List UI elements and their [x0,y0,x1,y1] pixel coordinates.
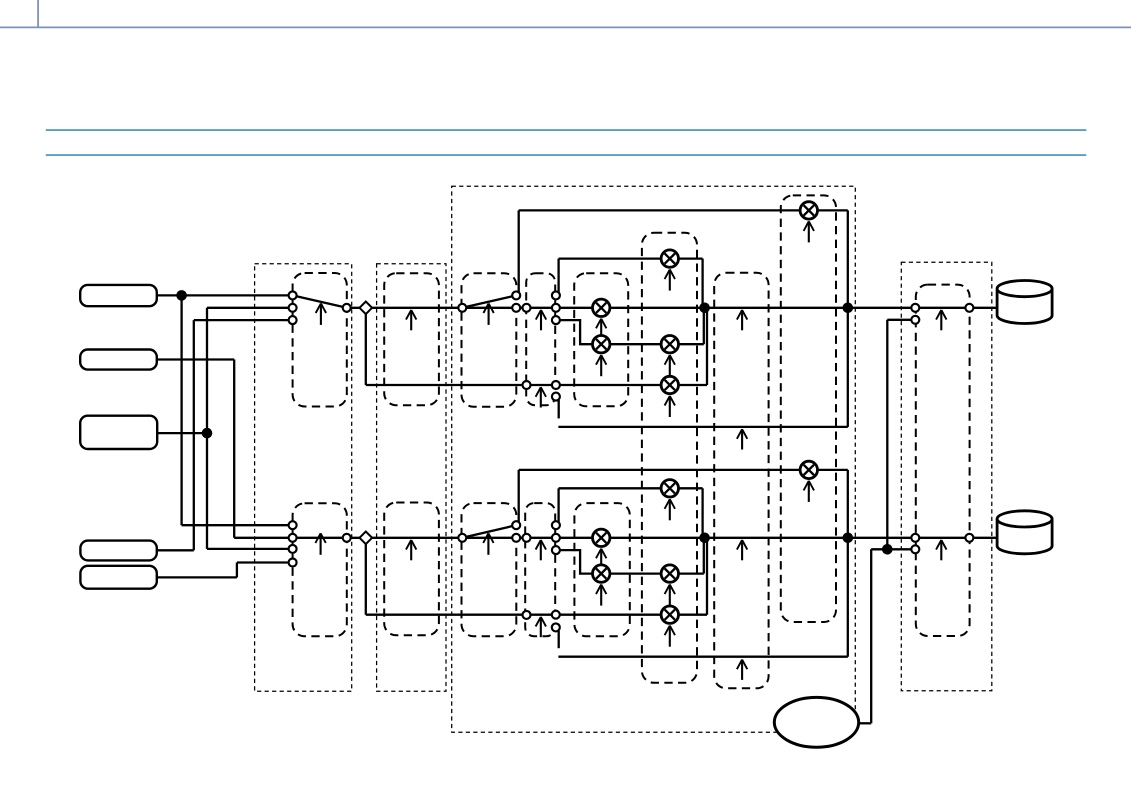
wire monitor rise ch2 [706,538,708,615]
multiplier M9 [661,480,678,497]
sink cylinder SINK2 [997,511,1052,554]
selector SW2a box (loopback select) [462,273,517,407]
selector SW2b control arrow [483,533,493,555]
contact SW2a loop contact [512,291,520,299]
multiplier M12 (loopback ch2) [800,461,817,478]
contact SP1 low out [552,316,560,324]
source box S3 [80,416,157,449]
contact SW1b contact 1 [289,521,297,529]
junction node C (mix sum ch1) [699,303,710,314]
monitor line ch1 [366,384,707,386]
gain V5 monitor arrow ch1 [737,429,747,449]
contact SW2a thru contact [512,304,520,312]
selector SW1b box (channel 2 input select) [293,503,347,636]
wire S4 to SW1a contact 3 [194,319,293,321]
contact SW1a common [343,304,351,312]
wire S5 to SW1b contact 4 [237,561,293,563]
contact sink1 out contact [965,304,973,312]
multiplier M11 [661,606,678,623]
sink1 gain arrow [936,310,946,330]
contact SW1a contact 2 [289,304,297,312]
wire splitter rise ch1 [557,259,559,293]
source box S5 [80,566,156,589]
source box S2 [80,350,157,370]
contact SW1b contact 2 [289,534,297,542]
volume arrow of multiplier M10 [665,585,675,606]
junction node A [176,290,187,301]
diamond tap ch1 [360,302,373,315]
splitter SP1 monitor arrow [536,387,546,407]
diamond tap ch2 [360,532,373,545]
header tab separator [37,0,39,27]
main bus channel 1 [347,307,998,309]
multiplier M4 [661,336,678,353]
microphone ellipse MIC1 [774,697,858,747]
wire S2 to SW1b contact 2 [234,537,292,539]
multiplier M7 [593,529,610,546]
volume box V3 (shared column) [642,233,697,683]
contact SP2 low out [552,546,560,554]
volume arrow of multiplier M2 [596,355,606,376]
multiplier M10 [661,565,678,582]
multiplier M2 [593,336,610,353]
contact SW1a contact 1 [289,291,297,299]
title rule 2 [46,154,1087,156]
wire aux column [886,320,888,550]
selector SW2b arm [462,525,516,538]
wire gain row rise ch2 [703,538,705,574]
contact SW2a input [458,304,466,312]
wire S2 riser [233,360,235,538]
contact sink2 main contact [911,534,919,542]
wire S5 out [157,576,237,578]
volume arrow of multiplier M7 [596,549,606,570]
selector SW1a arm [293,295,347,307]
gain V5 arrow ch1 [737,310,747,330]
wire tap drop ch1 [365,308,367,385]
multiplier M1 [593,299,610,316]
contact SW2b thru contact [512,534,520,542]
source box S1 [80,285,157,306]
splitter SP2 monitor arrow [536,617,546,637]
wire monitor return drop ch2 (open end) [558,631,560,648]
contact SP2 monitor out [552,611,560,619]
contact SP2 main in [523,534,531,542]
wire S1 to SW1a contact 1 [157,294,293,296]
wire S3 to SW1a contact 2 [207,307,293,309]
volume arrow of multiplier M9 [665,499,675,520]
wire S3 bus riser [206,308,208,549]
selector SW1b control arrow [315,533,325,555]
contact SP2 main out [552,534,560,542]
post-mix gain box V5 [714,273,768,689]
junction node F (monitor tap ch2) [843,533,854,544]
contact SW1a contact 3 [289,316,297,324]
selector SW1a control arrow [316,303,326,325]
contact SP1 monitor return [552,393,560,401]
junction node G (aux) [882,544,893,555]
volume arrow of multiplier M12 (loopback ch2) [804,481,814,502]
wire sink2 aux in [871,548,915,550]
multiplier M5 [661,376,678,393]
wire S3 out [157,432,207,434]
wire loopback drop to SW2b [518,470,520,523]
contact SP1 loop out [552,291,560,299]
wire mic out [857,722,871,724]
wire S4 riser [193,320,195,550]
wire S1 riser to SW1b [180,295,182,525]
loopback line ch1 [519,209,848,211]
resampler R1 control arrow [406,310,416,330]
wire tap drop ch2 [365,538,367,615]
wire loopback column ch2 [847,470,849,657]
title rule 1 [46,129,1087,131]
contact SW2b loop contact [512,521,520,529]
gain row line ch1 lower [556,320,704,344]
contact sink2 aux contact [911,545,919,553]
volume arrow of multiplier M4 [665,355,675,376]
contact SP1 main out [552,304,560,312]
gain V5 arrow ch2 [737,540,747,560]
volume arrow of multiplier M3 [665,270,675,291]
volume arrow of multiplier M1 [596,319,606,340]
multiplier M8 [593,565,610,582]
volume arrow of multiplier M8 [596,585,606,606]
volume arrow of multiplier M11 [665,626,675,647]
wire monitor rise ch1 [706,308,708,385]
wire mic riser [870,549,872,723]
loopback line ch2 [519,469,848,471]
resampler R1 box [384,273,439,405]
wire loopback drop to SW2a [518,210,520,293]
junction node D (monitor tap ch1) [843,303,854,314]
selector SW2a control arrow [483,303,493,325]
contact SW1b common [343,534,351,542]
volume arrow of multiplier M6 (loopback ch1) [804,221,814,242]
contact sink1 aux contact [911,316,919,324]
contact SP2 monitor in [523,611,531,619]
sink cylinder SINK1 [997,281,1052,324]
junction node E (mix sum ch2) [699,533,710,544]
monitor line ch2 [366,614,707,616]
wire S4 out [157,549,194,551]
contact SP2 monitor return [552,623,560,631]
monitor return line ch1 [558,426,847,428]
contact SW2b input [458,534,466,542]
loopback volume box V4 [781,195,836,622]
wire gain row drop ch2 [701,488,703,538]
multiplier M6 (loopback ch1) [800,202,817,219]
multiplier M3 [661,250,678,267]
module box: resampler column [377,264,446,692]
wire gain row rise ch1 [703,308,705,344]
contact SP1 monitor in [523,381,531,389]
contact SW1b contact 3 [289,545,297,553]
wire splitter rise ch2 [557,488,559,523]
gain row line ch2 lower [556,550,704,574]
gain row line ch2 upper [559,487,703,489]
contact SP2 loop out [552,521,560,529]
wire S1 to SW1b contact 1 [182,524,293,526]
monitor return line ch2 [558,656,847,658]
main bus channel 2 [347,537,998,539]
contact SP1 main in [523,304,531,312]
selector SW2b box (loopback select) [462,503,517,636]
splitter box SP2 [525,503,555,636]
selector SW1a box (channel 1 input select) [293,273,347,407]
module box: core mixing engine [452,186,856,732]
junction node B [202,428,213,439]
volume box V2 [574,503,629,636]
contact SP1 monitor out [552,381,560,389]
module box: sink column [901,262,992,691]
module box: source routing column [255,264,352,692]
contact sink2 out contact [965,534,973,542]
volume box V1 [574,273,628,406]
splitter SP2 main arrow [536,540,546,560]
wire sink1 aux in [887,319,915,321]
selector SW2a arm [462,295,516,307]
volume arrow of multiplier M5 [665,396,675,417]
contact SW1b contact 4 [289,559,297,567]
header bottom border [0,26,1131,28]
gain row line ch1 upper [559,257,703,259]
selector SW1b arm [293,537,347,539]
wire S3 to SW1b contact 3 [207,548,293,550]
splitter box SP1 [526,273,555,405]
wire gain row drop ch1 [701,259,703,308]
source box S4 [80,541,156,561]
sink2 gain arrow [936,540,946,560]
wire loopback column ch1 [847,210,849,427]
resampler R2 box [384,503,439,636]
wire monitor return drop ch1 (open end) [558,400,560,418]
sink input box V6 [916,285,970,636]
wire S5 riser [236,563,238,578]
splitter SP1 main arrow [536,310,546,330]
gain V5 monitor arrow ch2 [737,660,747,680]
resampler R2 control arrow [406,540,416,560]
wire S2 out [157,358,234,360]
contact sink1 main contact [911,304,919,312]
